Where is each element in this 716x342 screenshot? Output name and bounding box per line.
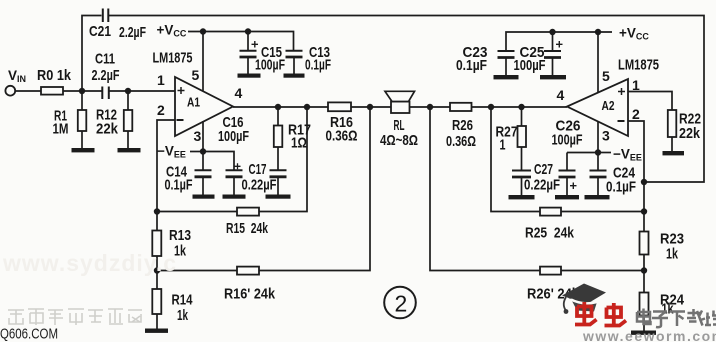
svg-text:0.1µF: 0.1µF [305,57,331,74]
watermark: red chongchong characters [575,302,626,326]
ground (C27) [509,195,535,199]
pin 1 (A2) [632,77,640,93]
ground (C16) [223,195,246,199]
svg-text:1k: 1k [666,246,678,263]
node: R17 branch [275,104,281,110]
figure number circled 2 [384,287,416,319]
capacitor C17 0.22uF [242,161,287,195]
resistor R1 1M [53,91,87,149]
svg-text:2: 2 [632,106,640,122]
pin 5 (A1) + wire from +Vcc rail [192,32,204,91]
pin 2 (A2) [632,106,640,122]
svg-text:1M: 1M [53,121,69,138]
resistor R23 1k [640,231,685,263]
resistor R16' 24k [224,267,276,303]
ground (C15) [238,74,261,78]
svg-text:0.22µF: 0.22µF [524,177,560,194]
op-amp U1 LM1875 (A1) [153,50,234,137]
resistor R24 1k [640,292,685,318]
svg-text:C17: C17 [249,161,267,178]
svg-text:1Ω: 1Ω [291,135,307,152]
svg-text:A2: A2 [602,98,615,113]
resistor R16 0.36ohm [326,102,358,144]
capacitor C13 0.1uF [286,44,332,74]
svg-text:5: 5 [192,67,200,83]
svg-text:C11: C11 [95,51,115,68]
op-amp U2 LM1875 (A2) [567,57,659,137]
ground (C14) [193,195,215,199]
pin 3 (A2) + wire to -Vee node [598,122,610,153]
svg-text:2.2µF: 2.2µF [92,67,120,84]
resistor R26 0.36ohm [446,103,476,150]
resistor R26' 24k [527,267,580,303]
node: C11 right junction [125,88,131,94]
svg-text:R14: R14 [172,292,193,309]
watermark: www.eeworm.com gray [582,328,716,342]
node: C15 branch on +Vcc rail [245,28,251,34]
svg-text:0.22µF: 0.22µF [242,177,277,194]
svg-text:3: 3 [602,128,610,144]
svg-text:22k: 22k [96,121,119,138]
svg-text:5: 5 [602,68,610,84]
svg-text:100µF: 100µF [514,57,546,74]
node: R25 feedback branch [488,104,494,110]
svg-text:R15 24k: R15 24k [226,220,268,237]
capacitor C23 0.1uF [456,44,515,75]
svg-text:3: 3 [194,128,202,144]
resistor R0 1k [37,67,72,95]
watermark: gray site name characters [637,309,716,328]
svg-text:4Ω~8Ω: 4Ω~8Ω [380,132,418,149]
watermark: faint chinese text bottom-left [8,309,142,325]
ground (R22) [663,151,685,155]
resistor R25 24k [525,208,575,242]
svg-text:22k: 22k [679,125,701,142]
ground (R24) [631,331,656,335]
net +Vcc (right) label [619,26,649,42]
capacitor C26 100uF (wire from -Vee node) [552,118,599,196]
wire: pin1 A2 to R22 [628,92,672,111]
capacitor C27 0.22uF [512,161,560,195]
wire: A1 pin2 feedback column with R13 R14 [157,120,175,329]
svg-text:R26: R26 [452,117,473,134]
node: R15 feedback branch [304,104,310,110]
node: speaker left / R16' branch [367,104,373,110]
net +Vcc (left) label [157,23,187,39]
svg-text:0.1µF: 0.1µF [606,179,636,196]
svg-text:0.36Ω: 0.36Ω [326,128,358,145]
pin 4 (A2) output label [557,87,565,103]
svg-text:0.36Ω: 0.36Ω [446,133,476,150]
watermark: graduation cap logo [562,284,606,314]
resistor R13 1k [152,227,191,260]
svg-text:1: 1 [157,72,165,88]
svg-text:100µF: 100µF [255,57,285,74]
ground (C25) [540,75,566,79]
ground (R14) [145,329,168,333]
wire: R25 feedback loop to A2 column [491,107,644,212]
node: C25 branch [549,29,555,35]
capacitor C16 100uF (wire from -Vee node) [203,114,249,195]
node: pin5 branch on +Vcc rail [200,28,206,34]
pin 2 (A1) [157,102,165,118]
capacitor C25 100uF [514,32,563,75]
watermark: Q606.COM bottom-left [0,326,58,342]
svg-text:100µF: 100µF [552,132,583,149]
wire: +Vcc right rail [506,32,612,50]
node: R27 zobel branch [518,104,524,110]
wire: R0 to C11 to A1 pin1, with input node [63,90,175,92]
svg-text:4: 4 [557,87,565,103]
capacitor C21 [89,9,146,42]
svg-text:www.sydzdiy.c: www.sydzdiy.c [2,250,177,276]
svg-text:1: 1 [500,137,506,154]
node: input junction [79,88,85,94]
capacitor C11 2.2uF [92,51,120,100]
wire: pin2 A2 column down to ground [628,121,644,331]
ground (C26) [555,195,579,199]
svg-text:R25 24k: R25 24k [525,225,575,242]
svg-text:2: 2 [157,102,165,118]
ground (R12) [118,148,141,152]
node: speaker right / R26' branch [427,104,433,110]
input terminal VIN [5,68,26,96]
watermark: faint site url mid-left [2,250,177,276]
wire: +Vcc left rail [188,32,294,51]
pin 5 (A2) + wire from +Vcc rail [598,32,610,92]
resistor R17 1ohm [274,107,311,170]
resistor R12 22k [96,91,132,149]
node: R15/R13 junction [154,208,160,214]
wire: R26' loop from speaker right node [430,107,644,271]
resistor R27 1ohm [496,107,527,170]
svg-text:R16' 24k: R16' 24k [224,286,276,303]
speaker RL 4-8 ohm [380,91,418,149]
node: R16'/R14 junction [154,267,160,273]
ground (C24) [585,195,610,199]
capacitor C14 0.1uF [165,152,212,195]
svg-text:R0 1k: R0 1k [37,67,72,84]
node: C21 loop joins inverting column [641,179,647,185]
svg-text:Q606.COM: Q606.COM [0,326,58,342]
svg-text:C21: C21 [89,23,111,40]
ground (C23) [494,75,519,79]
svg-text:LM1875: LM1875 [618,57,659,74]
resistor R14 1k [152,289,193,324]
svg-text:0.1µF: 0.1µF [165,177,193,194]
svg-text:1: 1 [632,77,640,93]
capacitor C15 100uF [240,32,286,74]
wire: input node up to C21 top loop, across to right edge, down to A2 inverting column [82,16,704,183]
node: R26' row joins column [641,267,647,273]
svg-text:R13: R13 [169,227,191,244]
svg-text:A1: A1 [187,95,200,110]
wire: R15 feedback loop from A1 output [157,107,307,212]
wire: VIN to R0 [15,90,41,92]
pin 3 (A1) + wire down to -Vee node [194,121,204,152]
ground (C17) [266,195,291,199]
node: pin5 branch (A2) [595,29,601,35]
svg-text:0.1µF: 0.1µF [456,57,487,74]
svg-text:C27: C27 [534,161,553,178]
svg-text:www.eeworm.com: www.eeworm.com [582,328,716,342]
svg-text:2: 2 [395,291,408,317]
node: -Vee right junction [595,149,601,155]
net -Vee (left) label and stub [157,144,203,160]
svg-text:LM1875: LM1875 [153,50,193,67]
pin 4 (A1) output label [235,85,243,101]
resistor R15 24k [226,208,268,237]
net -Vee (right) label [598,147,642,163]
node: R25 row joins column [641,208,647,214]
resistor R22 22k [668,110,701,151]
capacitor C24 0.1uF [590,153,637,196]
ground (C13) [284,74,305,78]
node: -Vee left junction [200,148,206,154]
pin 1 (A1) [157,72,165,88]
svg-text:100µF: 100µF [218,128,249,145]
wire: R16' loop from speaker left node [157,107,370,271]
wire: A1 output row [233,106,567,108]
svg-text:2.2µF: 2.2µF [119,24,146,41]
svg-text:1k: 1k [177,307,188,324]
svg-text:4: 4 [235,85,243,101]
ground (R1) [72,148,95,152]
